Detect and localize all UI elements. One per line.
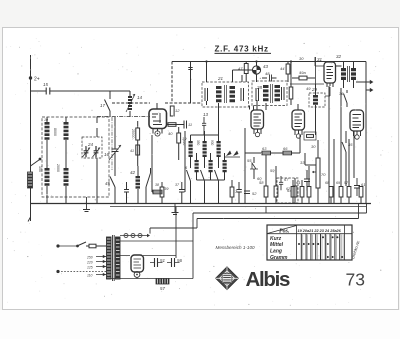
- oscillator coil La: [182, 135, 193, 166]
- wire right bus: [365, 62, 367, 205]
- resistor R19: [177, 127, 187, 160]
- switch S6c: [215, 166, 219, 204]
- wire bus2 drop: [265, 207, 267, 214]
- label ZF frequency: [215, 45, 272, 54]
- oscillator box wires: [152, 131, 185, 192]
- svg-text:52: 52: [252, 191, 257, 196]
- resistor R40: [168, 123, 176, 136]
- capacitor T2 Ca: [256, 88, 259, 101]
- band table row labels: [270, 236, 288, 261]
- svg-text:19 20a21 22 23 24 25a26: 19 20a21 22 23 24 25a26: [298, 229, 342, 233]
- coil L3 band2: [38, 150, 50, 197]
- dashdot gang link: [111, 117, 113, 170]
- wire wrap b+: [193, 204, 367, 279]
- svg-text:69: 69: [336, 181, 340, 185]
- resistor Rrow5: [339, 187, 343, 204]
- capacitor C11: [184, 121, 192, 129]
- mains wire top: [58, 245, 77, 247]
- resistor R27 outside: [289, 82, 293, 105]
- svg-text:Lang: Lang: [270, 249, 282, 255]
- svg-text:57: 57: [160, 286, 166, 291]
- oscillator coil Lc2: [223, 153, 227, 180]
- wire psu mid: [120, 255, 176, 257]
- svg-text:30: 30: [299, 56, 304, 61]
- svg-text:66: 66: [283, 146, 288, 151]
- wire output right: [356, 81, 373, 92]
- resistor Rrow2: [296, 180, 304, 204]
- switch S6b: [201, 166, 205, 204]
- svg-text:Pos.: Pos.: [279, 229, 290, 235]
- wire dashed grid y103: [112, 102, 202, 104]
- svg-text:60: 60: [257, 176, 262, 181]
- svg-text:12: 12: [175, 108, 180, 113]
- svg-text:150: 150: [38, 166, 42, 172]
- svg-text:17: 17: [100, 103, 106, 108]
- svg-text:350: 350: [196, 140, 200, 146]
- wire psu top: [120, 240, 193, 242]
- svg-text:38: 38: [155, 183, 159, 187]
- svg-text:Albis: Albis: [246, 268, 291, 291]
- svg-text:125: 125: [87, 266, 93, 270]
- resistor R11 grid: [131, 121, 140, 166]
- capacitor T1 Cb: [241, 88, 244, 101]
- coil L2 band1: [53, 117, 69, 150]
- svg-text:Z.F. 473 kHz: Z.F. 473 kHz: [215, 45, 269, 54]
- tube V2 IF: [251, 104, 264, 137]
- resistor R63: [262, 146, 271, 155]
- resistor Rm3: [230, 180, 238, 204]
- resistor Rrow3: [307, 166, 311, 204]
- svg-text:47: 47: [238, 66, 243, 71]
- svg-text:16: 16: [104, 152, 110, 157]
- wire b+ to box1: [190, 62, 192, 104]
- oscillator coil Lc: [210, 135, 221, 166]
- svg-text:68: 68: [325, 181, 329, 185]
- svg-text:28: 28: [256, 85, 263, 90]
- svg-text:120: 120: [182, 140, 186, 146]
- wire coil commons: [47, 158, 97, 204]
- resistor R44: [280, 62, 290, 83]
- band table dots: [298, 236, 343, 258]
- switch S17: [100, 91, 110, 117]
- wire psu feed: [175, 207, 177, 259]
- capacitor C70: [304, 170, 310, 191]
- svg-text:31: 31: [317, 57, 323, 62]
- capacitor C48: [262, 71, 277, 82]
- pilot lamps: [120, 234, 150, 238]
- svg-text:Mittel: Mittel: [270, 242, 284, 248]
- capacitor Cb1 marks: [188, 68, 192, 70]
- band table side text: [350, 239, 361, 259]
- diode arrows mid: [224, 151, 240, 158]
- capacitor Crow7: [354, 178, 365, 196]
- svg-text:900: 900: [210, 140, 214, 146]
- rectifier tube V6: [131, 255, 144, 279]
- svg-text:10: 10: [44, 118, 48, 122]
- small box R30: [304, 132, 316, 140]
- coil L42: [130, 166, 140, 204]
- resistor R58: [259, 155, 268, 204]
- capacitor Cm4: [236, 182, 242, 204]
- resistor Rrow8: [359, 187, 363, 204]
- ground antenna box: [83, 197, 90, 212]
- svg-text:49: 49: [306, 86, 311, 91]
- tube V4 output: [317, 57, 336, 87]
- transformer TR secondary: [115, 237, 121, 279]
- switch S35: [342, 139, 353, 160]
- node bus j1: [205, 60, 207, 62]
- antenna terminal: [28, 217, 31, 222]
- svg-text:61: 61: [296, 180, 300, 185]
- transformer TR core: [113, 235, 115, 281]
- trimmer box: [82, 137, 102, 158]
- wire grid line y91: [31, 90, 131, 92]
- tube V3 detector: [292, 104, 305, 138]
- capacitor C44: [124, 182, 129, 204]
- antenna coil box: [42, 117, 109, 197]
- oscillator coil La2: [195, 153, 199, 180]
- node bus j3: [290, 60, 292, 62]
- capacitor T2 Cb: [282, 87, 285, 100]
- capacitor C52: [244, 191, 257, 196]
- coil L1 band1: [44, 117, 50, 150]
- svg-text:25000: 25000: [131, 129, 135, 139]
- coil T2 Lb: [275, 85, 281, 101]
- svg-text:51: 51: [160, 258, 166, 263]
- wire s35: [345, 131, 347, 186]
- svg-text:41: 41: [130, 149, 134, 153]
- wire mixer anode: [167, 124, 185, 126]
- voltage selector taps: [96, 255, 106, 276]
- trimmer C1: [83, 146, 91, 157]
- svg-text:42: 42: [130, 170, 136, 175]
- switch S45 band: [31, 158, 42, 166]
- wire wrap lower: [150, 204, 359, 234]
- wire T2 connections: [250, 62, 292, 111]
- IF transformer T1 box: [202, 76, 249, 107]
- svg-text:32: 32: [336, 54, 342, 59]
- svg-text:39: 39: [164, 186, 169, 191]
- wire T1 connections: [207, 62, 254, 136]
- switch S36 upper: [339, 90, 347, 107]
- band table column shading: [303, 235, 343, 260]
- capacitor C67: [279, 176, 289, 190]
- mains switch lever: [77, 242, 89, 247]
- switch S6a: [185, 165, 191, 204]
- capacitor Cm2: [175, 182, 185, 204]
- band table columns: [301, 234, 339, 260]
- svg-text:55: 55: [247, 158, 252, 163]
- resistor R1 antenna: [26, 172, 34, 188]
- svg-text:70: 70: [321, 172, 326, 177]
- mains labels: [86, 256, 93, 278]
- wire dashdot feedback: [97, 116, 150, 118]
- resistor R59: [274, 166, 278, 204]
- wire det line: [245, 152, 300, 154]
- svg-text:45: 45: [105, 181, 111, 186]
- coil T2 La: [263, 84, 273, 103]
- svg-text:44: 44: [280, 66, 285, 71]
- svg-text:33: 33: [300, 160, 305, 165]
- coil T4: [313, 84, 318, 135]
- band table frame: [267, 225, 352, 260]
- resistor R41: [130, 145, 140, 155]
- resistor R66: [283, 146, 292, 155]
- svg-text:Kurz: Kurz: [270, 236, 282, 242]
- tube V1 mixer: [149, 103, 167, 136]
- IF transformer T2 box: [252, 81, 287, 106]
- label Albis: [246, 268, 291, 291]
- band table header: [279, 229, 342, 235]
- switch S46: [105, 172, 115, 204]
- tube V5 magic eye: [350, 110, 364, 139]
- label 13: [203, 112, 209, 117]
- svg-text:21: 21: [217, 76, 224, 81]
- svg-text:11: 11: [188, 122, 192, 127]
- svg-text:49a: 49a: [299, 70, 306, 75]
- logo albis diamond: [216, 267, 239, 290]
- wire right verticals: [349, 131, 354, 178]
- wire af lines: [329, 86, 341, 204]
- label Messbereich: [216, 245, 256, 250]
- svg-text:Messbereich 1-100: Messbereich 1-100: [216, 245, 256, 250]
- svg-text:30: 30: [311, 144, 316, 149]
- svg-text:2+: 2+: [34, 77, 40, 83]
- svg-text:43: 43: [263, 64, 269, 69]
- wire to converter top: [171, 62, 173, 104]
- resistor Rrow6: [347, 172, 351, 204]
- svg-text:250: 250: [86, 256, 93, 260]
- capacitor C56: [167, 258, 183, 267]
- coil T1 Lb: [230, 86, 236, 102]
- capacitor T1 Ca: [205, 88, 208, 101]
- ground main: [172, 204, 179, 215]
- svg-text:110: 110: [87, 274, 93, 278]
- wire af coupling: [305, 153, 316, 165]
- dashed box T4: [309, 87, 325, 107]
- svg-text:29: 29: [311, 87, 318, 92]
- svg-text:48: 48: [265, 71, 270, 76]
- wire bottom bus second: [110, 206, 366, 208]
- capacitor C15: [43, 82, 50, 95]
- oscillator coil Lb2: [209, 153, 213, 180]
- resistor Rrow1: [291, 180, 295, 204]
- variable capacitor C16: [104, 143, 121, 160]
- mains fuse: [89, 244, 106, 248]
- transformer TR primary: [106, 237, 113, 279]
- wire tuning cap: [114, 117, 116, 172]
- capacitor C51: [150, 258, 166, 267]
- svg-text:220: 220: [86, 261, 93, 265]
- scan speckle noise: [6, 35, 393, 306]
- wire trimmer feed: [96, 117, 98, 138]
- output transformer T3: [336, 54, 367, 88]
- coil L14 variable: [126, 91, 143, 117]
- dashed box det: [277, 178, 298, 203]
- volume pot: [312, 140, 326, 204]
- node antenna junction: [29, 77, 39, 83]
- resistor R49: [292, 70, 315, 80]
- resistor Rm1: [155, 182, 164, 204]
- svg-text:36: 36: [339, 91, 344, 96]
- svg-text:73: 73: [346, 270, 365, 290]
- svg-text:62: 62: [286, 187, 290, 191]
- coil L4 band2: [56, 150, 69, 197]
- label det cluster: [247, 144, 316, 181]
- svg-text:24: 24: [87, 142, 94, 147]
- svg-text:13: 13: [203, 112, 209, 117]
- switch S47: [146, 168, 151, 204]
- wire top left of v4: [310, 57, 324, 84]
- wire det verticals: [245, 128, 300, 204]
- wire top bus: [172, 61, 366, 63]
- wire osc top: [191, 131, 225, 180]
- mains wire bottom: [58, 271, 106, 273]
- label 30: [299, 56, 311, 91]
- svg-text:59: 59: [270, 168, 275, 173]
- node bus j2: [255, 60, 257, 62]
- svg-text:8000: 8000: [53, 128, 57, 136]
- svg-text:14: 14: [137, 95, 143, 100]
- resistor R65: [293, 178, 297, 204]
- label 73: [346, 270, 365, 290]
- svg-text:6: 6: [185, 165, 188, 170]
- resistor R57 block: [156, 278, 169, 292]
- wire bottom bus: [31, 203, 372, 205]
- component labels row: [286, 181, 349, 191]
- resistor Rrow4: [329, 187, 333, 204]
- svg-text:56: 56: [177, 258, 183, 263]
- wire antenna lead: [30, 55, 32, 221]
- wire psu bottom: [106, 278, 193, 280]
- mains terminal dots: [57, 245, 59, 273]
- coil T1 La: [216, 85, 227, 103]
- capacitor C13: [202, 117, 206, 135]
- svg-text:Gramm: Gramm: [270, 255, 288, 261]
- lamp indicator: [252, 62, 268, 83]
- resistor R47: [238, 62, 248, 83]
- svg-text:2000: 2000: [56, 164, 60, 172]
- diode D1: [250, 157, 258, 179]
- trimmer C2: [93, 146, 101, 157]
- resistor R39: [153, 186, 169, 194]
- wire v4 cathode: [290, 84, 330, 96]
- resistor R12: [170, 106, 180, 116]
- oscillator coil Lb: [196, 135, 207, 166]
- svg-text:37: 37: [175, 183, 180, 187]
- svg-text:57: 57: [344, 181, 349, 185]
- svg-text:15: 15: [43, 82, 49, 87]
